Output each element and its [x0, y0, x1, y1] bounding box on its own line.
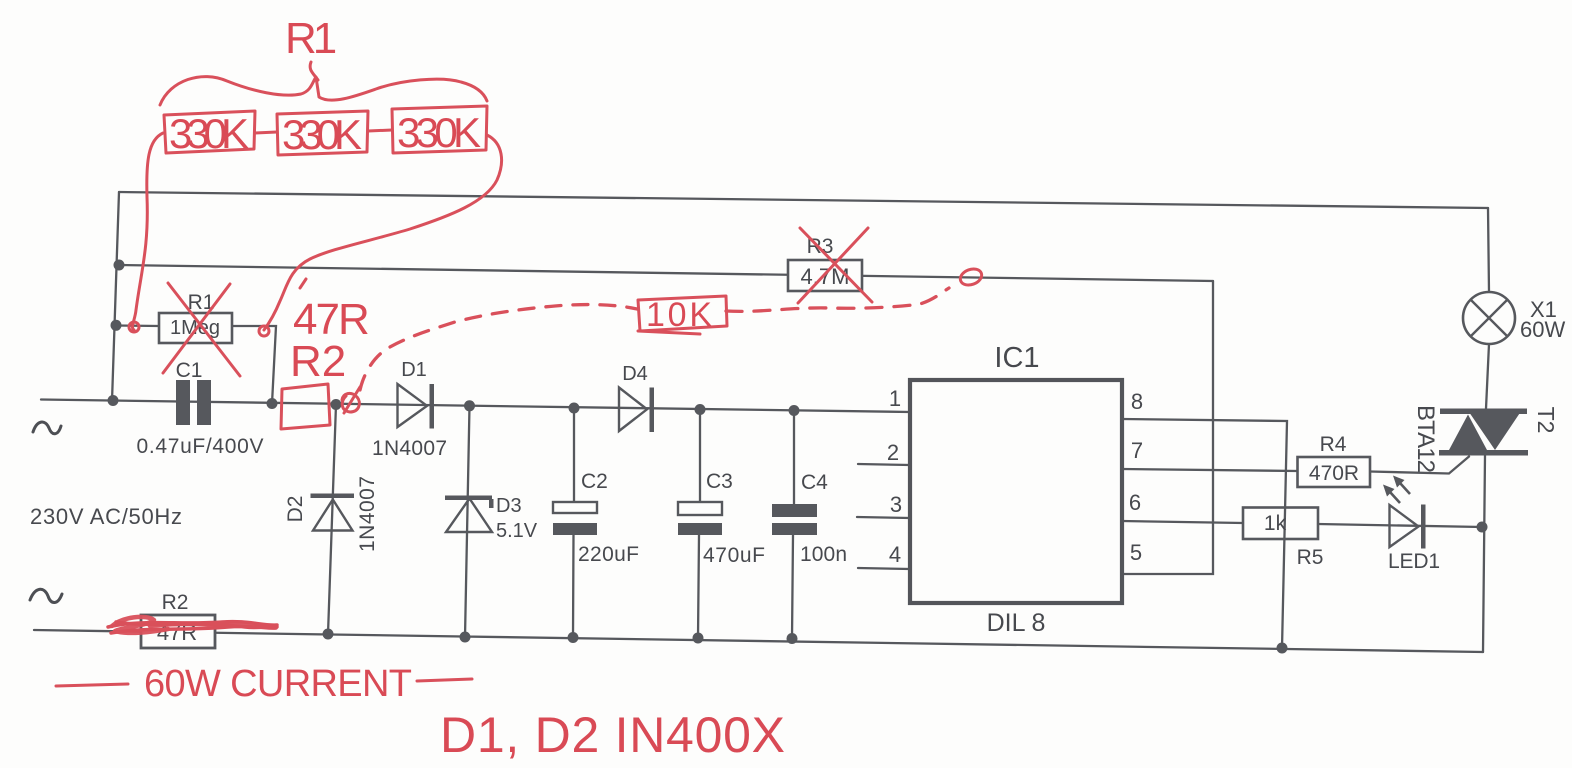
red dashed replacement wire right part — [726, 288, 949, 311]
handwritten brace over 330K resistors — [160, 77, 487, 105]
red wire from 330K no.1 down to R1 left — [132, 133, 163, 330]
svg-text:R4: R4 — [1320, 433, 1347, 456]
svg-text:DIL 8: DIL 8 — [987, 609, 1046, 637]
lamp X1 60W — [1463, 292, 1565, 344]
svg-text:D4: D4 — [622, 363, 648, 385]
dash before 60W CURRENT — [56, 684, 128, 686]
resistor R2 47R box — [141, 591, 215, 648]
svg-text:D1: D1 — [401, 359, 427, 381]
handwritten resistor box 330K no.2 — [277, 111, 368, 155]
svg-text:330K: 330K — [397, 109, 481, 156]
red dashed replacement wire left part — [360, 305, 637, 390]
handwritten R1 leader tail — [310, 62, 318, 80]
svg-text:IC1: IC1 — [994, 342, 1039, 374]
dash after 60W CURRENT — [417, 679, 472, 681]
red circle scribble at node — [342, 387, 360, 413]
svg-text:230V AC/50Hz: 230V AC/50Hz — [30, 504, 182, 529]
svg-text:C3: C3 — [706, 470, 733, 493]
svg-text:7: 7 — [1131, 438, 1143, 463]
svg-text:10K: 10K — [646, 296, 712, 334]
svg-text:330K: 330K — [169, 110, 249, 157]
svg-text:0.47uF/400V: 0.47uF/400V — [137, 435, 264, 458]
zener diode D3 5.1V — [445, 495, 538, 542]
wire second rail — [119, 265, 1213, 281]
diode D2 — [284, 476, 379, 552]
resistor R1 1Meg box — [159, 291, 232, 343]
wire triac to bottom rail — [1483, 455, 1485, 652]
red X crossing out R3 — [798, 228, 872, 303]
triac T2 BTA12 — [1412, 405, 1559, 473]
wire right vertical top to lamp — [1488, 208, 1489, 292]
svg-text:220uF: 220uF — [578, 543, 639, 566]
handwritten red text — [144, 14, 785, 763]
red wire end circle left — [129, 322, 139, 332]
svg-text:C2: C2 — [581, 470, 608, 493]
handwritten resistor box 330K no.1 — [164, 111, 255, 153]
svg-text:LED1: LED1 — [1388, 550, 1440, 573]
op-amp IC1 box DIL 8 — [887, 342, 1143, 637]
wire pin 8 to vertical — [1122, 419, 1287, 648]
wire pin 4 stub — [858, 568, 910, 569]
capacitor C4 100n — [772, 471, 847, 566]
capacitor C2 220uF — [553, 470, 639, 566]
wire pin 7 to R4 — [1122, 469, 1298, 471]
svg-text:BTA12: BTA12 — [1412, 405, 1439, 473]
wire pin 2 stub — [858, 464, 910, 465]
wire C2 lower — [572, 535, 575, 638]
svg-text:R1: R1 — [285, 14, 336, 63]
svg-text:8: 8 — [1131, 389, 1143, 414]
svg-text:2: 2 — [887, 440, 899, 465]
resistor R5 1k box — [1243, 508, 1323, 570]
wire C4 lower — [792, 535, 793, 639]
diode D4 — [619, 363, 654, 432]
svg-text:R2: R2 — [290, 337, 346, 386]
svg-text:470R: 470R — [1309, 462, 1359, 485]
wire left vertical branch — [112, 192, 119, 401]
small red tick — [300, 279, 306, 288]
svg-text:C1: C1 — [176, 359, 203, 382]
svg-text:1k: 1k — [1264, 512, 1287, 535]
svg-text:1: 1 — [889, 386, 901, 411]
handwritten box for 47R R2 replacement — [281, 384, 330, 429]
LED1 — [1383, 476, 1440, 574]
wire top rail — [119, 192, 1488, 208]
wire pin 6 to R5 — [1122, 521, 1243, 523]
red circle at dashed wire end — [958, 266, 984, 288]
wire R1 row right — [232, 326, 276, 404]
wire C3 branch — [699, 410, 701, 503]
red wire from 330K no.3 down to R1 right — [264, 135, 502, 330]
AC source squiggle top — [33, 422, 61, 434]
svg-text:1N4007: 1N4007 — [356, 476, 379, 552]
wire R1 row left — [114, 324, 159, 327]
red scribble heavy core — [112, 617, 255, 633]
svg-text:6: 6 — [1129, 490, 1141, 515]
wire C4 branch — [793, 411, 795, 505]
handwritten resistor box 330K no.3 — [392, 106, 487, 153]
resistor R4 470R box — [1298, 433, 1371, 487]
svg-text:3: 3 — [890, 492, 902, 517]
capacitor C3 470uF — [678, 470, 765, 567]
wire D3 branch — [465, 406, 470, 637]
svg-text:D1, D2 IN400X: D1, D2 IN400X — [440, 707, 785, 763]
wire lamp to triac — [1486, 344, 1489, 409]
svg-text:D3: D3 — [496, 495, 522, 517]
wire pin 3 stub — [857, 517, 910, 518]
red scribble crossing out 47R box — [108, 622, 277, 633]
capacitor C1 — [137, 359, 264, 458]
svg-text:5.1V: 5.1V — [496, 520, 538, 542]
svg-text:1N4007: 1N4007 — [372, 437, 447, 460]
svg-text:D2: D2 — [284, 496, 307, 523]
wire C3 lower — [698, 535, 699, 638]
svg-text:4: 4 — [889, 542, 901, 567]
red wire end circle right — [259, 326, 269, 336]
resistor R3 4.7M box — [788, 235, 862, 291]
svg-text:100n: 100n — [800, 543, 847, 566]
svg-text:5: 5 — [1130, 540, 1142, 565]
wire pin 5 to second rail — [1122, 281, 1213, 574]
svg-text:4.7M: 4.7M — [801, 264, 850, 289]
wire C2 branch — [573, 408, 575, 502]
svg-text:60W CURRENT: 60W CURRENT — [144, 663, 412, 705]
red annotations — [56, 62, 984, 686]
svg-text:C4: C4 — [801, 471, 828, 494]
diode D1 — [372, 359, 447, 460]
handwritten box 10K — [638, 296, 727, 334]
wire R4 to triac gate — [1370, 457, 1469, 474]
svg-text:R2: R2 — [162, 591, 189, 614]
svg-text:330K: 330K — [282, 111, 362, 158]
red X crossing out R1 — [163, 283, 240, 376]
wire D2 branch — [328, 405, 336, 635]
wire main AC line to IC pin 1 — [41, 400, 910, 413]
wire between 330K boxes 1-2 — [255, 132, 277, 133]
wire between 330K boxes 2-3 — [368, 130, 392, 131]
wire R5 to LED junction — [1318, 524, 1482, 527]
svg-text:60W: 60W — [1520, 317, 1565, 342]
AC source squiggle bottom — [30, 589, 62, 602]
wire bottom rail — [34, 630, 1483, 652]
svg-text:T2: T2 — [1533, 407, 1559, 434]
svg-text:R5: R5 — [1297, 546, 1324, 569]
svg-text:470uF: 470uF — [703, 544, 765, 567]
